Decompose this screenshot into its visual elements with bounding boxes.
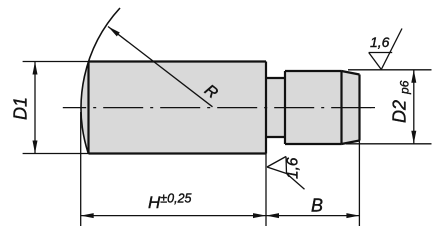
svg-text:1,6: 1,6 — [370, 34, 390, 50]
svg-text:H±0,25: H±0,25 — [148, 192, 192, 213]
svg-text:D1: D1 — [10, 97, 30, 120]
svg-text:1,6: 1,6 — [285, 157, 302, 179]
svg-text:B: B — [311, 196, 323, 216]
svg-text:D2p6: D2p6 — [390, 80, 412, 123]
